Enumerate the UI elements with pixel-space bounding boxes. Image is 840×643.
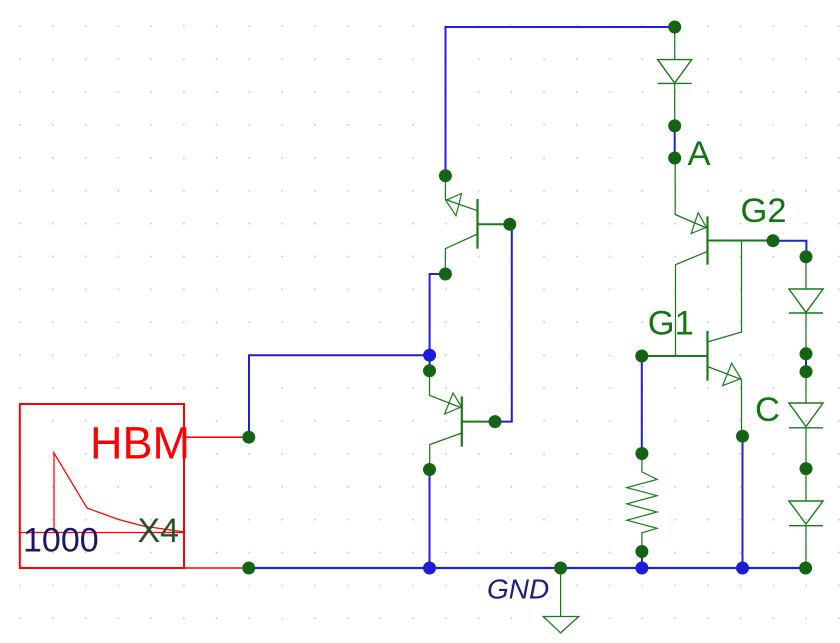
node dot: D3-D4 junction xyxy=(800,462,813,475)
wire green: Q1 base / Q2 collector cross link xyxy=(708,241,742,343)
wire blue: resistor bottom to ground bus xyxy=(641,552,643,569)
svg-text:G1: G1 xyxy=(648,304,694,342)
wire red: HBM ground stub xyxy=(184,567,249,569)
node dot: D2 cathode port xyxy=(800,347,813,360)
ground symbol xyxy=(543,568,579,633)
wire blue: Q4 collector down to ground bus xyxy=(429,470,431,569)
node dot: resistor bottom xyxy=(635,545,648,558)
wire blue: Q3 collector to center junction xyxy=(430,274,446,355)
node dot: Q4 emitter xyxy=(423,364,436,377)
wire blue: A-node top run from Q3 emitter up and across xyxy=(446,27,675,176)
node dot: GND tap on bus xyxy=(554,562,567,575)
node dot: Q2 emitter port xyxy=(736,430,749,443)
wire blue: G1 node down to resistor xyxy=(641,356,643,454)
wire green: D1 cathode to port dot xyxy=(674,83,676,126)
node dot: D1 cathode port xyxy=(668,119,681,132)
resistor R1 xyxy=(627,453,657,552)
wire blue: center junction to Q4 emitter dot xyxy=(429,355,431,371)
node dot: Q4 base xyxy=(489,415,502,428)
transistor Q1 (upper PNP of SCR) xyxy=(675,213,773,356)
node dot: bus right end xyxy=(799,562,812,575)
node dot: Q3 base xyxy=(503,218,516,231)
wire green: junction dot to D4 xyxy=(805,469,807,501)
node dot: G1 xyxy=(635,350,648,363)
wire green: D2 cathode to port dot xyxy=(805,313,807,354)
node dot: Q3 emitter xyxy=(439,169,452,182)
junction dot: bus at Q2 emitter (blue) xyxy=(736,562,749,575)
wire blue: short link between anode port dots xyxy=(674,126,676,158)
node dot: G2 xyxy=(767,234,780,247)
svg-text:G2: G2 xyxy=(741,192,787,230)
svg-text:X4: X4 xyxy=(138,512,180,550)
node dot: D3 anode port xyxy=(800,365,813,378)
node dot: HBM ground port xyxy=(242,562,255,575)
wire blue: ground bus xyxy=(249,567,806,569)
wire green: node A down to Q1 emitter xyxy=(674,158,676,215)
node dot: Q3 collector xyxy=(439,268,452,281)
junction dot: bus at Q4 collector (blue) xyxy=(423,562,436,575)
node dot: HBM output port xyxy=(242,431,255,444)
wire green: G1 lead from dot to Q2 base bar xyxy=(642,355,708,357)
diode D3 xyxy=(789,403,823,428)
wire green: D3 cathode to junction dot xyxy=(805,428,807,469)
svg-text:A: A xyxy=(688,135,711,173)
junction dot: bus at resistor (blue) xyxy=(635,562,648,575)
node dot: node A port xyxy=(668,152,681,165)
svg-text:HBM: HBM xyxy=(90,418,190,469)
wire blue: Q2 emitter dot down to ground bus xyxy=(742,436,744,568)
wire green: G2 port dot to D2 xyxy=(805,257,807,289)
transistor Q3 (upper middle PNP) xyxy=(445,176,509,274)
wire red: HBM output xyxy=(184,436,249,438)
wire green: anode dot to D1 xyxy=(674,27,676,60)
node dot: D2 anode port xyxy=(800,250,813,263)
wire green: port dot to D3 xyxy=(805,372,807,403)
wire green: D4 cathode to ground bus xyxy=(805,526,807,568)
transistor Q4 (lower middle PNP) xyxy=(430,371,496,470)
svg-text:GND: GND xyxy=(487,574,549,605)
svg-text:C: C xyxy=(755,391,780,429)
diode D2 xyxy=(789,289,823,313)
wire blue: short link between cathode chain port dots xyxy=(805,354,807,372)
transistor Q2 (lower NPN of SCR) xyxy=(708,331,742,436)
node dot: anode top junction xyxy=(668,21,681,34)
node dot: resistor top xyxy=(635,447,648,460)
HBM source X4 box xyxy=(20,404,184,568)
svg-text:1000: 1000 xyxy=(23,522,99,560)
junction dot: center junction (blue) xyxy=(423,349,436,362)
wire blue: HBM output up to center junction xyxy=(249,355,430,437)
diode D1 xyxy=(658,60,692,84)
node dot: Q4 collector xyxy=(423,463,436,476)
wire blue: G2 node bend to diode chain xyxy=(773,241,806,257)
wire blue: Q3 base to Q4 base link xyxy=(495,224,512,421)
diode D4 xyxy=(789,501,823,526)
